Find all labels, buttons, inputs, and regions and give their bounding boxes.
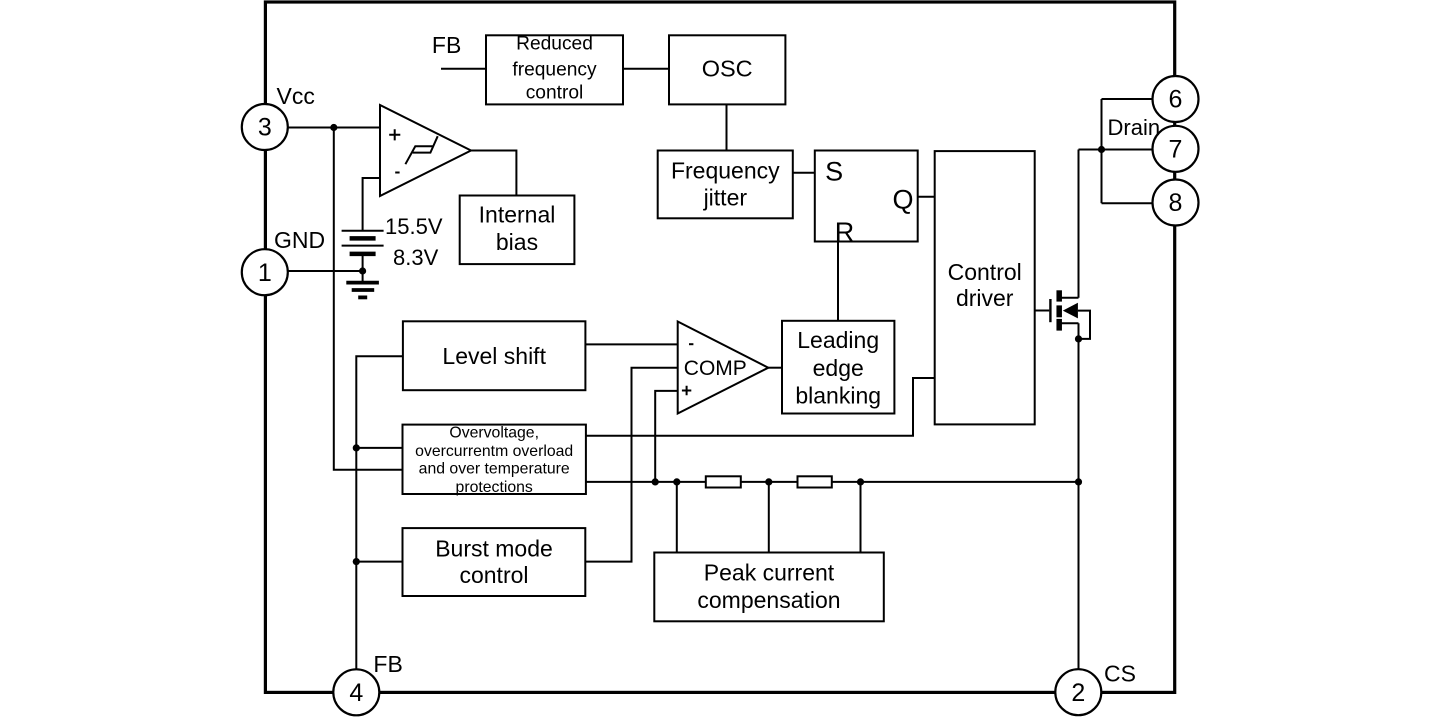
svg-text:GND: GND bbox=[274, 227, 325, 253]
svg-text:8.3V: 8.3V bbox=[393, 245, 439, 270]
svg-text:frequency: frequency bbox=[512, 60, 597, 81]
svg-text:Frequency: Frequency bbox=[671, 158, 780, 184]
svg-text:S: S bbox=[825, 157, 843, 187]
svg-text:Q: Q bbox=[892, 185, 913, 215]
svg-text:Burst mode: Burst mode bbox=[435, 536, 553, 562]
svg-text:edge: edge bbox=[813, 355, 864, 381]
svg-text:CS: CS bbox=[1104, 661, 1136, 687]
svg-text:Drain: Drain bbox=[1108, 115, 1161, 140]
svg-text:8: 8 bbox=[1169, 189, 1183, 217]
svg-text:FB: FB bbox=[432, 32, 461, 58]
svg-text:bias: bias bbox=[496, 229, 538, 255]
svg-text:driver: driver bbox=[956, 285, 1014, 311]
svg-text:jitter: jitter bbox=[703, 185, 748, 211]
svg-text:COMP: COMP bbox=[684, 357, 747, 380]
svg-text:OSC: OSC bbox=[702, 56, 753, 82]
svg-text:compensation: compensation bbox=[697, 587, 840, 613]
svg-text:Reduced: Reduced bbox=[516, 34, 593, 55]
svg-text:3: 3 bbox=[258, 114, 272, 142]
svg-text:blanking: blanking bbox=[795, 383, 881, 409]
svg-text:6: 6 bbox=[1169, 86, 1183, 114]
svg-text:Vcc: Vcc bbox=[277, 83, 315, 109]
svg-text:control: control bbox=[526, 83, 584, 104]
svg-text:7: 7 bbox=[1169, 135, 1183, 163]
svg-text:Peak current: Peak current bbox=[704, 560, 835, 586]
svg-text:and over temperature: and over temperature bbox=[419, 461, 570, 478]
svg-text:FB: FB bbox=[373, 651, 402, 677]
svg-text:Internal: Internal bbox=[479, 202, 556, 228]
svg-text:Leading: Leading bbox=[797, 327, 879, 353]
svg-text:4: 4 bbox=[349, 679, 363, 707]
svg-text:2: 2 bbox=[1071, 679, 1085, 707]
svg-text:Overvoltage,: Overvoltage, bbox=[449, 425, 539, 442]
svg-text:Level shift: Level shift bbox=[442, 343, 546, 369]
svg-text:control: control bbox=[459, 562, 528, 588]
svg-text:protections: protections bbox=[456, 479, 533, 496]
svg-text:1: 1 bbox=[258, 259, 272, 287]
svg-text:R: R bbox=[835, 217, 855, 247]
svg-text:15.5V: 15.5V bbox=[385, 214, 443, 239]
svg-text:Control: Control bbox=[948, 259, 1022, 285]
svg-text:overcurrentm overload: overcurrentm overload bbox=[415, 443, 573, 460]
